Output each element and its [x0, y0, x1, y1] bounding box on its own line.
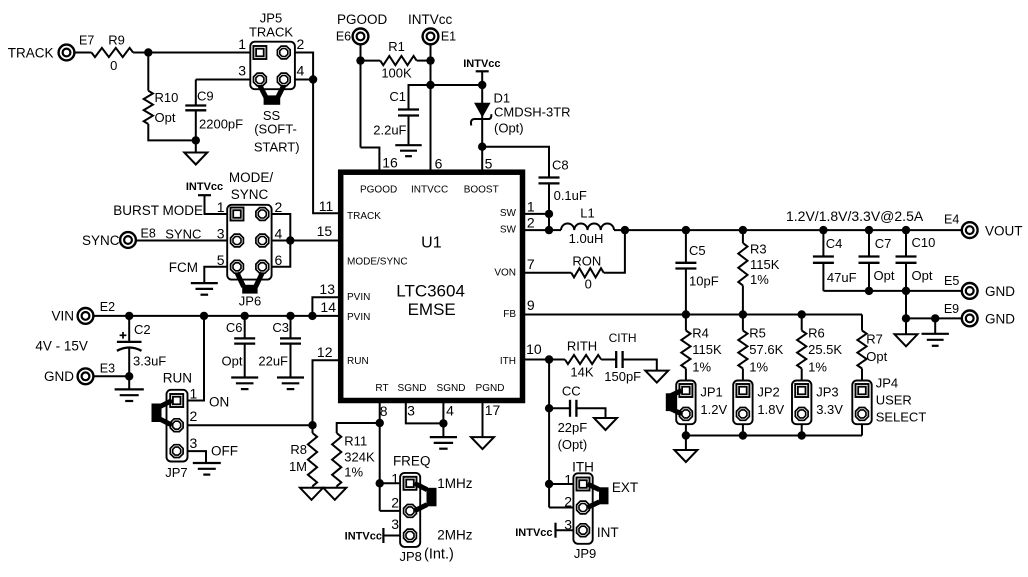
svg-text:Opt: Opt	[912, 268, 933, 283]
svg-text:0: 0	[110, 58, 117, 73]
svg-text:PVIN: PVIN	[347, 312, 370, 323]
svg-text:C9: C9	[197, 89, 214, 104]
svg-text:INTVCC: INTVCC	[411, 184, 448, 195]
svg-text:6: 6	[435, 155, 443, 171]
svg-text:1MHz: 1MHz	[437, 476, 473, 491]
svg-text:(Opt): (Opt)	[558, 437, 588, 452]
svg-text:3: 3	[238, 62, 246, 78]
svg-text:JP3: JP3	[816, 385, 838, 400]
svg-text:C8: C8	[552, 158, 569, 173]
svg-text:GND: GND	[985, 284, 1015, 299]
svg-text:(Opt): (Opt)	[494, 121, 524, 136]
svg-text:R7: R7	[866, 332, 883, 347]
svg-text:1: 1	[564, 471, 572, 487]
svg-text:7: 7	[527, 256, 535, 272]
svg-text:Opt: Opt	[155, 110, 176, 125]
svg-text:CC: CC	[562, 384, 581, 399]
svg-text:0: 0	[585, 276, 592, 291]
svg-text:INT: INT	[597, 525, 619, 540]
svg-text:GND: GND	[985, 312, 1015, 327]
svg-text:1.8V: 1.8V	[757, 402, 784, 417]
svg-text:2: 2	[391, 495, 399, 511]
svg-text:INTVcc: INTVcc	[408, 12, 453, 27]
svg-text:INTVcc: INTVcc	[463, 58, 500, 70]
svg-text:R6: R6	[808, 325, 825, 340]
svg-text:OFF: OFF	[211, 443, 238, 458]
svg-text:E5: E5	[944, 274, 959, 288]
svg-text:SW: SW	[500, 208, 517, 219]
svg-text:1.2V/1.8V/3.3V@2.5A: 1.2V/1.8V/3.3V@2.5A	[786, 208, 924, 224]
svg-text:LTC3604: LTC3604	[396, 282, 465, 301]
svg-text:3: 3	[407, 402, 415, 418]
svg-text:R4: R4	[692, 325, 709, 340]
svg-text:14: 14	[320, 299, 336, 315]
svg-text:C10: C10	[912, 235, 936, 250]
svg-text:CITH: CITH	[609, 331, 637, 345]
svg-text:JP7: JP7	[165, 465, 187, 480]
svg-text:TRACK: TRACK	[347, 211, 381, 222]
svg-text:1.2V: 1.2V	[700, 402, 727, 417]
svg-text:10pF: 10pF	[689, 273, 719, 288]
svg-text:1%: 1%	[808, 360, 827, 375]
svg-text:C7: C7	[875, 236, 892, 251]
svg-text:SYNC: SYNC	[231, 187, 269, 202]
svg-text:9: 9	[527, 297, 535, 313]
svg-text:SGND: SGND	[398, 383, 427, 394]
svg-text:RITH: RITH	[567, 339, 597, 354]
svg-text:115K: 115K	[692, 342, 722, 357]
svg-text:2200pF: 2200pF	[199, 116, 243, 131]
svg-text:1%: 1%	[344, 465, 363, 480]
svg-text:VON: VON	[494, 268, 516, 279]
svg-text:JP4: JP4	[876, 375, 898, 390]
svg-text:ON: ON	[209, 395, 229, 410]
svg-text:1M: 1M	[289, 459, 307, 474]
svg-text:E9: E9	[944, 302, 959, 316]
svg-text:3: 3	[391, 516, 399, 532]
svg-text:BURST MODE: BURST MODE	[113, 203, 203, 218]
svg-text:RON: RON	[572, 254, 601, 269]
svg-text:C2: C2	[134, 322, 151, 337]
svg-text:25.5K: 25.5K	[808, 342, 842, 357]
svg-text:PGND: PGND	[476, 383, 505, 394]
svg-text:TRACK: TRACK	[249, 25, 293, 40]
svg-text:MODE/SYNC: MODE/SYNC	[347, 257, 408, 268]
svg-text:14K: 14K	[570, 364, 593, 379]
svg-text:D1: D1	[494, 90, 511, 105]
svg-text:3.3uF: 3.3uF	[133, 354, 166, 369]
svg-text:324K: 324K	[344, 450, 375, 465]
svg-text:RT: RT	[375, 383, 388, 394]
svg-text:RUN: RUN	[347, 356, 369, 367]
svg-text:JP9: JP9	[574, 546, 596, 561]
svg-text:R1: R1	[388, 39, 405, 54]
svg-text:PVIN: PVIN	[347, 292, 370, 303]
svg-text:1: 1	[238, 36, 246, 52]
svg-text:15: 15	[317, 223, 333, 239]
svg-text:22uF: 22uF	[258, 354, 288, 369]
svg-text:SGND: SGND	[437, 383, 466, 394]
svg-text:INTVcc: INTVcc	[186, 181, 223, 193]
svg-text:INTVcc: INTVcc	[515, 527, 552, 539]
svg-text:SW: SW	[500, 225, 517, 236]
svg-text:E2: E2	[100, 300, 115, 314]
svg-text:2.2uF: 2.2uF	[373, 123, 406, 138]
svg-text:BOOST: BOOST	[464, 184, 499, 195]
svg-text:ITH: ITH	[500, 356, 516, 367]
svg-text:100K: 100K	[381, 66, 412, 81]
svg-text:EMSE: EMSE	[408, 300, 456, 319]
svg-text:22pF: 22pF	[558, 420, 588, 435]
svg-text:E6: E6	[336, 29, 351, 43]
svg-text:3: 3	[217, 225, 225, 241]
svg-text:R11: R11	[344, 433, 367, 448]
svg-text:C5: C5	[689, 243, 706, 258]
svg-text:Opt: Opt	[866, 349, 887, 364]
svg-text:C4: C4	[826, 236, 843, 251]
svg-text:SYNC: SYNC	[82, 233, 120, 248]
svg-text:1%: 1%	[750, 272, 769, 287]
svg-text:115K: 115K	[750, 257, 780, 272]
svg-text:JP1: JP1	[700, 385, 722, 400]
svg-text:150pF: 150pF	[604, 369, 641, 384]
svg-text:Opt: Opt	[222, 354, 243, 369]
svg-text:FB: FB	[503, 309, 516, 320]
svg-text:E4: E4	[944, 213, 959, 227]
svg-text:4V - 15V: 4V - 15V	[35, 338, 88, 353]
svg-text:VIN: VIN	[51, 309, 74, 324]
svg-text:E7: E7	[79, 33, 94, 47]
svg-text:MODE/: MODE/	[229, 170, 274, 185]
svg-text:4: 4	[446, 402, 454, 418]
svg-text:PGOOD: PGOOD	[337, 12, 388, 27]
svg-text:1%: 1%	[749, 360, 768, 375]
svg-text:C1: C1	[389, 89, 406, 104]
svg-text:13: 13	[319, 281, 335, 297]
svg-text:11: 11	[319, 198, 334, 214]
svg-text:4: 4	[297, 62, 305, 78]
svg-text:JP2: JP2	[757, 385, 779, 400]
svg-text:1.0uH: 1.0uH	[569, 231, 604, 246]
svg-text:2MHz: 2MHz	[437, 527, 473, 542]
svg-text:16: 16	[382, 154, 398, 170]
svg-text:10: 10	[526, 341, 542, 357]
svg-text:(Int.): (Int.)	[424, 547, 454, 563]
svg-text:5: 5	[485, 155, 493, 171]
svg-text:1%: 1%	[692, 360, 711, 375]
svg-text:C6: C6	[226, 320, 243, 335]
svg-text:R8: R8	[290, 442, 307, 457]
svg-text:2: 2	[275, 199, 283, 215]
svg-text:SELECT: SELECT	[876, 410, 927, 425]
svg-text:1: 1	[527, 198, 535, 214]
svg-text:57.6K: 57.6K	[749, 342, 783, 357]
svg-text:L1: L1	[580, 206, 594, 221]
svg-text:C3: C3	[272, 320, 289, 335]
svg-text:ITH: ITH	[572, 460, 594, 475]
svg-text:FCM: FCM	[169, 260, 198, 275]
svg-text:CMDSH-3TR: CMDSH-3TR	[494, 104, 571, 119]
svg-text:E3: E3	[100, 361, 115, 375]
svg-text:12: 12	[317, 344, 333, 360]
svg-text:TRACK: TRACK	[8, 45, 54, 60]
svg-text:5: 5	[217, 252, 225, 268]
svg-text:USER: USER	[876, 393, 912, 408]
svg-text:3.3V: 3.3V	[816, 402, 843, 417]
svg-text:FREQ: FREQ	[393, 454, 431, 469]
svg-text:VOUT: VOUT	[985, 223, 1023, 238]
svg-text:17: 17	[485, 402, 501, 418]
svg-text:INTVcc: INTVcc	[345, 530, 382, 542]
svg-text:E1: E1	[441, 29, 456, 43]
svg-text:PGOOD: PGOOD	[360, 184, 397, 195]
svg-text:1: 1	[217, 199, 225, 215]
svg-text:2: 2	[297, 36, 305, 52]
svg-text:EXT: EXT	[612, 480, 638, 495]
svg-text:3: 3	[564, 516, 572, 532]
svg-text:1: 1	[190, 385, 198, 401]
svg-text:JP5: JP5	[260, 11, 282, 26]
svg-text:RUN: RUN	[163, 371, 192, 386]
svg-text:4: 4	[275, 225, 283, 241]
svg-text:R3: R3	[750, 242, 767, 257]
svg-text:6: 6	[275, 252, 283, 268]
svg-text:1: 1	[391, 470, 399, 486]
svg-text:3: 3	[190, 435, 198, 451]
svg-text:2: 2	[564, 493, 572, 509]
svg-text:2: 2	[527, 215, 535, 231]
svg-text:8: 8	[380, 403, 388, 419]
svg-text:2: 2	[190, 408, 198, 424]
svg-text:47uF: 47uF	[827, 270, 857, 285]
svg-text:R5: R5	[749, 325, 766, 340]
svg-text:R10: R10	[155, 90, 179, 105]
svg-text:R9: R9	[108, 33, 125, 48]
svg-text:Opt: Opt	[874, 268, 895, 283]
svg-text:JP6: JP6	[239, 294, 261, 309]
svg-text:E8: E8	[141, 226, 156, 240]
svg-text:JP8: JP8	[399, 549, 421, 564]
svg-text:GND: GND	[44, 369, 74, 384]
svg-text:SYNC: SYNC	[165, 226, 201, 241]
svg-text:0.1uF: 0.1uF	[554, 188, 587, 203]
svg-text:U1: U1	[421, 235, 442, 252]
svg-text:START): START)	[254, 140, 300, 155]
svg-text:(SOFT-: (SOFT-	[254, 122, 297, 137]
